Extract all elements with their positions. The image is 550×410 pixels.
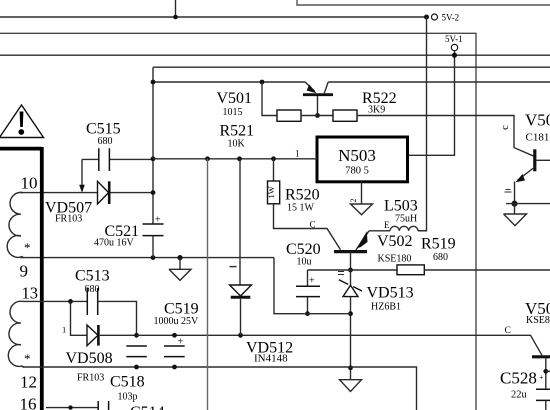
resistor R519 xyxy=(397,236,456,275)
svg-text:10K: 10K xyxy=(228,139,246,150)
node junction at (350.5,270) xyxy=(348,268,353,273)
node junction at (307.5,313.7) xyxy=(305,311,310,316)
wire R519 output to right edge xyxy=(424,269,550,271)
svg-text:16: 16 xyxy=(20,394,37,410)
svg-text:10u: 10u xyxy=(297,257,312,268)
svg-text:1: 1 xyxy=(62,325,66,335)
regulator N503 xyxy=(317,137,408,182)
svg-text:22u: 22u xyxy=(511,390,528,401)
node junction at (70.5,407.6) xyxy=(68,405,72,409)
inductor L503 xyxy=(384,198,427,231)
svg-text:C: C xyxy=(310,220,316,230)
node junction at (70.5,301.4) xyxy=(68,299,73,304)
svg-text:*: * xyxy=(24,351,31,366)
ground (V503 emitter) xyxy=(504,204,527,226)
svg-text:V502: V502 xyxy=(377,233,413,250)
svg-text:1015: 1015 xyxy=(223,107,243,118)
ground (N503) xyxy=(351,204,373,215)
svg-text:HZ6B1: HZ6B1 xyxy=(371,302,401,313)
capacitor C514 xyxy=(98,401,164,410)
wire R520 to V502 collector xyxy=(274,204,341,250)
wire ground link y=313.7 xyxy=(274,258,351,314)
svg-text:+: + xyxy=(539,373,544,382)
transformer isolation corner (thick) xyxy=(0,147,42,410)
resistor R522 xyxy=(333,90,397,121)
diode VD508 xyxy=(66,325,137,383)
svg-text:C519: C519 xyxy=(164,301,199,318)
transistor V502 xyxy=(334,231,413,270)
warning triangle xyxy=(0,105,44,138)
wire R522 to V503 collector xyxy=(357,116,534,157)
transistor V503 xyxy=(500,111,550,204)
svg-text:15 1W: 15 1W xyxy=(287,203,315,214)
node terminal 5V-2 xyxy=(432,14,438,20)
wire x=153 vertical (rectifier output) xyxy=(152,67,154,224)
svg-text:R521: R521 xyxy=(220,123,255,140)
svg-text:680: 680 xyxy=(85,284,100,295)
svg-text:R520: R520 xyxy=(285,187,320,204)
svg-text:N503: N503 xyxy=(338,146,376,165)
svg-text:75uH: 75uH xyxy=(395,213,417,224)
svg-text:1: 1 xyxy=(295,148,300,158)
node junction at (350.5,367.8) xyxy=(348,365,353,370)
zener VD513 xyxy=(338,270,414,380)
resistor R521 xyxy=(220,110,302,150)
wire y=68 rail xyxy=(153,66,550,68)
wire top stub x=175.5 xyxy=(175,0,177,17)
transistor V504 xyxy=(525,299,550,390)
svg-text:FR103: FR103 xyxy=(77,372,104,383)
svg-text:C513: C513 xyxy=(75,268,110,285)
svg-text:+: + xyxy=(309,276,315,287)
node junction at (317.5,115.5) xyxy=(315,113,320,118)
svg-text:C518: C518 xyxy=(110,374,145,391)
wire 5V-2 rail y=17 xyxy=(0,16,427,18)
svg-text:680: 680 xyxy=(98,136,113,147)
ground (main secondary) xyxy=(169,258,191,281)
node junction at (514.5,203.6) xyxy=(512,201,518,207)
node junction at (350.5,313.7) xyxy=(348,311,353,316)
node junction at (153,258.3) xyxy=(151,255,156,260)
svg-text:c: c xyxy=(500,125,511,130)
wire pin10 to VD507 xyxy=(20,192,98,194)
node junction at (175.5,17) xyxy=(173,15,178,20)
wire x=262 drop to R521 xyxy=(262,82,277,116)
svg-text:3K9: 3K9 xyxy=(368,105,385,116)
node junction at (454.5,56) xyxy=(452,53,457,58)
node junction at (262,82) xyxy=(260,80,265,85)
capacitor C528 xyxy=(500,369,550,410)
capacitor C513 xyxy=(75,268,137,336)
wire y=33.5 rail turning down at x=476 xyxy=(0,33,476,410)
wire bottom C514 stub xyxy=(46,407,98,409)
svg-text:C1815: C1815 xyxy=(526,131,550,143)
wire x=427 from 5V-2 down to L503 output xyxy=(418,17,427,231)
svg-text:C514: C514 xyxy=(130,404,165,410)
node junction at (174.5,367) xyxy=(172,365,177,370)
svg-text:+: + xyxy=(178,337,184,348)
node junction at (136.5,335.3) xyxy=(134,333,139,338)
svg-text:5V-2: 5V-2 xyxy=(442,12,460,22)
svg-text:VD508: VD508 xyxy=(66,350,113,367)
svg-text:C: C xyxy=(505,326,511,336)
svg-text:13: 13 xyxy=(22,284,39,303)
wire emitter to L503 xyxy=(369,230,390,232)
resistor R520 xyxy=(266,159,320,214)
transistor V501 xyxy=(217,82,334,118)
svg-text:470u 16V: 470u 16V xyxy=(94,237,135,248)
svg-text:C520: C520 xyxy=(286,241,321,258)
svg-text:R519: R519 xyxy=(421,236,456,253)
node junction at (136.5,367) xyxy=(134,365,139,370)
svg-text:*: * xyxy=(24,240,31,255)
svg-text:+: + xyxy=(155,215,161,226)
wire base node y=270 xyxy=(308,269,398,271)
svg-text:IN4148: IN4148 xyxy=(254,353,288,365)
diode VD507 xyxy=(45,181,153,224)
svg-text:KSE8050: KSE8050 xyxy=(526,315,550,326)
svg-text:V503: V503 xyxy=(525,111,550,130)
wire N503 ground pin 2 xyxy=(361,182,363,204)
svg-text:C528: C528 xyxy=(500,369,537,388)
wire secondary ground y=258.3 xyxy=(20,257,274,259)
svg-text:780 5: 780 5 xyxy=(345,166,369,177)
svg-text:V501: V501 xyxy=(217,90,253,107)
svg-text:L503: L503 xyxy=(384,198,418,215)
node junction at (153,82) xyxy=(151,80,156,85)
capacitor C520 xyxy=(286,241,321,314)
svg-text:12: 12 xyxy=(20,373,37,392)
wire x=208 feed going off-sheet xyxy=(207,159,209,410)
wire C515 branch down with arrow xyxy=(81,159,83,185)
node junction at (239.5,158.8) xyxy=(237,156,242,161)
svg-text:1000u 25V: 1000u 25V xyxy=(154,316,200,327)
svg-text:10: 10 xyxy=(21,173,38,192)
svg-text:VD513: VD513 xyxy=(367,285,414,302)
svg-text:103p: 103p xyxy=(118,391,138,402)
svg-text:KSE180: KSE180 xyxy=(378,254,412,265)
node junction at (545.8,370.8) xyxy=(543,369,548,374)
capacitor C521 xyxy=(94,215,164,258)
wire V503 emitter node xyxy=(506,203,550,205)
node junction at (240.5,335.3) xyxy=(238,333,243,338)
wire 5V rail y=56 xyxy=(0,54,550,56)
svg-text:FR103: FR103 xyxy=(55,213,82,224)
svg-text:5V-1: 5V-1 xyxy=(445,34,463,44)
wire y=335.3 rail to V504 collector xyxy=(137,335,543,355)
wire between R521 and R522 xyxy=(301,115,333,117)
node junction at (426.5,17) xyxy=(424,15,429,20)
transformer winding pins 13-12 xyxy=(8,284,38,410)
capacitor C519 xyxy=(154,301,200,357)
ground (zener) xyxy=(340,380,362,392)
node junction at (273.5,158.8) xyxy=(271,156,276,161)
wire y=367 return rail xyxy=(23,367,417,410)
wire N503 input rail y=158.8 xyxy=(153,158,317,160)
node junction at (207.5,158.8) xyxy=(205,156,210,161)
wire y=82 rail xyxy=(153,81,550,83)
svg-text:E: E xyxy=(384,220,390,230)
capacitor C518 xyxy=(110,346,147,402)
node junction at (153,158.8) xyxy=(151,156,156,161)
svg-text:9: 9 xyxy=(20,261,29,280)
svg-text:2: 2 xyxy=(349,199,358,203)
capacitor C515 xyxy=(82,121,153,172)
transformer winding pins 10-9 xyxy=(7,173,37,280)
wire pin13 lower branch xyxy=(71,301,88,335)
wire 5V-1 drop to N503 output xyxy=(408,51,455,156)
svg-text:680: 680 xyxy=(433,252,448,263)
node junction at (180,258.3) xyxy=(177,255,182,260)
wire pin13 top branch xyxy=(23,300,87,302)
wire top rail y=5 xyxy=(297,0,550,5)
diode VD512 xyxy=(230,159,294,365)
node junction at (153,192.6) xyxy=(151,190,156,195)
node junction at (174.5,335.3) xyxy=(172,333,177,338)
svg-text:1W: 1W xyxy=(266,186,276,198)
